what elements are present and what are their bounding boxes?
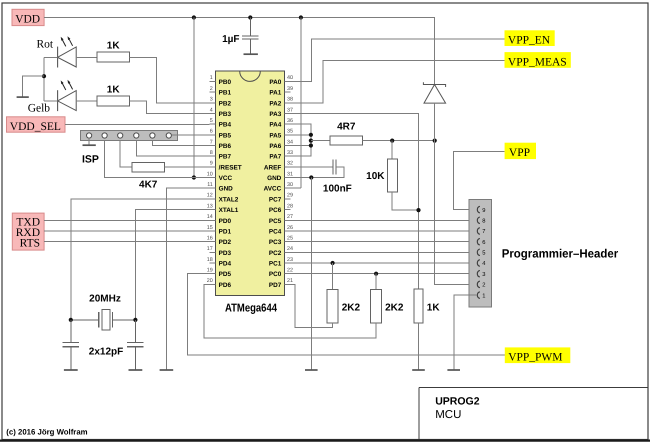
resistor R2 1K — [97, 84, 129, 106]
svg-text:PD5: PD5 — [219, 271, 232, 278]
svg-text:PB7: PB7 — [219, 154, 232, 161]
svg-text:PB1: PB1 — [219, 90, 232, 97]
wire PD5 to VPP_PWM — [188, 274, 505, 355]
resistor R6 2K2 — [327, 263, 360, 323]
svg-text:XTAL1: XTAL1 — [219, 207, 239, 214]
title block — [419, 388, 648, 440]
svg-text:PB3: PB3 — [219, 111, 232, 118]
svg-text:100nF: 100nF — [323, 183, 352, 194]
svg-text:9: 9 — [482, 207, 485, 214]
svg-text:1: 1 — [210, 75, 213, 81]
net label VDD — [12, 9, 44, 25]
wire R6 bottom to PD7 — [290, 284, 332, 327]
svg-text:2x12pF: 2x12pF — [89, 347, 123, 358]
svg-text:21: 21 — [287, 278, 293, 284]
svg-text:11: 11 — [207, 182, 213, 188]
svg-text:/RESET: /RESET — [219, 164, 242, 171]
svg-text:Gelb: Gelb — [28, 103, 51, 115]
IC U1 pins left side (1-20) with stubs, numbers and labels — [207, 75, 242, 289]
svg-text:18: 18 — [207, 257, 213, 263]
wire AREF to C4 — [290, 166, 333, 168]
svg-text:4: 4 — [210, 107, 213, 113]
svg-text:(c) 2016 Jörg Wolfram: (c) 2016 Jörg Wolfram — [6, 428, 87, 437]
wire PC5 to header pin8 — [290, 219, 476, 221]
ground GND net — [305, 369, 318, 371]
svg-text:ISP: ISP — [82, 153, 99, 165]
wire header pin1 to ground — [454, 295, 476, 369]
net label VDD_SEL — [7, 117, 66, 133]
svg-text:PA6: PA6 — [269, 143, 281, 150]
svg-text:2K2: 2K2 — [342, 302, 361, 313]
net label VPP_PWM — [505, 347, 571, 363]
svg-text:PC7: PC7 — [269, 196, 282, 203]
node junction 10K bottom — [416, 208, 420, 212]
wire TXD to PD0 — [44, 219, 209, 221]
node junction GND pin31 — [309, 175, 313, 179]
svg-text:35: 35 — [287, 129, 293, 135]
svg-text:AVCC: AVCC — [264, 186, 282, 193]
svg-text:AREF: AREF — [264, 164, 281, 171]
ground C2 — [64, 369, 78, 371]
svg-text:5: 5 — [210, 118, 213, 124]
wire XTAL2 to crystal — [71, 199, 210, 320]
svg-text:VPP_MEAS: VPP_MEAS — [508, 56, 567, 68]
wire PC0 to header pin3 — [290, 273, 476, 275]
svg-text:PB6: PB6 — [219, 143, 232, 150]
svg-text:2K2: 2K2 — [385, 302, 404, 313]
svg-text:PB2: PB2 — [219, 100, 232, 107]
svg-text:34: 34 — [287, 139, 293, 145]
svg-text:RTS: RTS — [20, 237, 40, 249]
node junction crystal left — [69, 318, 73, 322]
node junction R8 top — [374, 272, 378, 276]
svg-text:9: 9 — [210, 161, 213, 167]
wire PA4-PA7 cluster bus — [290, 124, 311, 156]
node junction on VDD rail at x=300.9 — [299, 15, 303, 19]
wire GND pin31 — [290, 177, 311, 179]
svg-text:36: 36 — [287, 118, 293, 124]
svg-text:20: 20 — [207, 278, 213, 284]
wire LED cathode bus — [43, 57, 45, 101]
svg-text:39: 39 — [287, 86, 293, 92]
resistor R5 10K — [366, 141, 397, 192]
LED D1 Rot — [37, 36, 77, 67]
wire PC2 to header pin5 — [290, 251, 476, 253]
svg-text:26: 26 — [287, 225, 293, 231]
svg-text:VDD: VDD — [15, 14, 40, 26]
svg-text:PA7: PA7 — [269, 154, 281, 161]
svg-text:PD7: PD7 — [269, 282, 282, 289]
node junction LED bus — [42, 74, 46, 78]
wire diode to header pin2 — [435, 103, 477, 284]
svg-text:27: 27 — [287, 214, 293, 220]
node junction PA5 — [309, 133, 313, 137]
node junction 10K top — [390, 139, 394, 143]
wire R3 to /RESET — [165, 166, 210, 168]
wire XTAL1 to crystal — [135, 210, 209, 320]
wire ISP pin5 to PB6 — [152, 141, 209, 146]
svg-text:Rot: Rot — [37, 38, 54, 50]
connector J2 Programmier-Header — [469, 199, 619, 307]
svg-text:30: 30 — [287, 182, 293, 188]
wire VDD_SEL to PB4 — [65, 124, 210, 126]
wire R7 bottom to ground — [418, 323, 420, 369]
svg-text:7: 7 — [482, 229, 485, 235]
wire to ground from LED bus — [23, 76, 44, 96]
resistor R7 1K — [414, 289, 440, 323]
svg-text:5: 5 — [482, 251, 485, 257]
wire GND pin11 down — [166, 188, 209, 369]
wire PC3 to header pin6 — [290, 241, 476, 243]
node junction on VDD rail at x=250.3 — [248, 15, 252, 19]
svg-text:PA0: PA0 — [269, 79, 281, 86]
svg-text:PD2: PD2 — [219, 239, 232, 246]
svg-text:3: 3 — [482, 271, 485, 278]
svg-text:PC1: PC1 — [269, 261, 282, 268]
svg-text:PA1: PA1 — [269, 90, 281, 97]
svg-text:1K: 1K — [427, 302, 441, 313]
ground header pin1 — [447, 369, 460, 371]
svg-text:1: 1 — [482, 293, 485, 299]
svg-text:PC2: PC2 — [269, 250, 282, 257]
svg-text:12: 12 — [207, 193, 213, 199]
svg-text:38: 38 — [287, 97, 293, 103]
wire AVCC riser to VDD rail — [290, 18, 301, 189]
wire LED D2 anode to R2 — [44, 100, 97, 102]
svg-text:33: 33 — [287, 150, 293, 156]
wire VPP to header pin9 — [454, 151, 505, 209]
svg-text:ATMega644: ATMega644 — [225, 303, 277, 315]
wire ISP pin4 to PB7 — [136, 141, 209, 157]
svg-text:XTAL2: XTAL2 — [219, 196, 239, 203]
resistor R8 2K2 — [371, 274, 404, 324]
ground R7 — [412, 369, 425, 371]
IC U1 ATMega644 body — [216, 71, 285, 315]
svg-text:PD1: PD1 — [219, 229, 232, 236]
ground ISP — [83, 144, 96, 146]
svg-text:4R7: 4R7 — [337, 122, 356, 133]
svg-text:VDD_SEL: VDD_SEL — [10, 121, 61, 133]
svg-text:PD3: PD3 — [219, 250, 232, 257]
svg-text:PB4: PB4 — [219, 122, 232, 129]
svg-text:Programmier–Header: Programmier–Header — [502, 247, 619, 261]
net label VPP_MEAS — [505, 52, 571, 68]
resistor R1 1K — [97, 41, 129, 63]
node junction diode bottom — [433, 139, 437, 143]
svg-text:37: 37 — [287, 107, 293, 113]
svg-text:4K7: 4K7 — [139, 180, 158, 191]
svg-text:PA4: PA4 — [269, 122, 281, 129]
svg-text:40: 40 — [287, 75, 293, 81]
svg-text:14: 14 — [207, 214, 213, 220]
wire RXD to PD1 — [44, 230, 209, 232]
svg-text:VPP_PWM: VPP_PWM — [508, 352, 562, 364]
svg-text:20MHz: 20MHz — [89, 294, 121, 305]
svg-text:25: 25 — [287, 236, 293, 242]
ground GND pin11 — [160, 369, 174, 371]
svg-text:UPROG2: UPROG2 — [435, 396, 480, 408]
node junction crystal right — [133, 318, 137, 322]
capacitor C4 100nF — [311, 160, 352, 195]
svg-text:31: 31 — [287, 171, 293, 177]
wire LED D1 anode to R1 — [44, 56, 97, 58]
ground C3 — [129, 369, 143, 371]
node junction R6 top — [331, 261, 335, 265]
LED D2 Gelb — [28, 80, 76, 115]
svg-text:PD6: PD6 — [219, 282, 232, 289]
svg-text:MCU: MCU — [435, 409, 461, 421]
resistor R3 4K7 — [132, 162, 165, 190]
node junction PA6 — [309, 143, 313, 147]
svg-text:PD4: PD4 — [219, 261, 232, 268]
svg-text:2: 2 — [482, 282, 485, 289]
svg-text:16: 16 — [207, 236, 213, 242]
wire 10K bottom to 1K column — [392, 192, 418, 210]
svg-text:GND: GND — [219, 186, 234, 193]
svg-text:7: 7 — [210, 139, 213, 145]
wire R8 bottom to PD6 — [204, 284, 376, 337]
svg-text:PA2: PA2 — [269, 100, 281, 107]
svg-text:PD0: PD0 — [219, 218, 232, 225]
wire PA0 to VPP_EN — [290, 39, 504, 82]
net label VPP — [505, 143, 536, 159]
svg-text:10K: 10K — [366, 171, 385, 182]
svg-text:6: 6 — [210, 129, 213, 135]
wire PC1 to header pin4 — [290, 262, 476, 264]
ground for C1 — [244, 53, 258, 55]
svg-text:PC0: PC0 — [269, 271, 282, 278]
connector J2 pin contacts and numbers 9..1 — [477, 206, 486, 299]
svg-text:28: 28 — [287, 203, 293, 209]
crystal Q1 20MHz — [71, 294, 136, 331]
svg-text:PA3: PA3 — [269, 111, 281, 118]
svg-text:8: 8 — [482, 218, 485, 225]
wire ISP pin6 to PB5 — [171, 134, 209, 136]
svg-text:1µF: 1µF — [222, 34, 239, 45]
svg-text:PC6: PC6 — [269, 207, 282, 214]
IC U1 pins right side (40-21) with stubs, numbers and labels — [264, 75, 293, 289]
svg-text:19: 19 — [207, 268, 213, 274]
wire PA2 to VPP_MEAS — [290, 61, 504, 103]
svg-text:PC4: PC4 — [269, 229, 282, 236]
wire R2 to PB3 — [129, 101, 209, 114]
svg-text:6: 6 — [482, 239, 485, 246]
capacitor C1 1uF — [222, 18, 258, 54]
node junction 4R7 tap — [309, 139, 313, 143]
svg-text:22: 22 — [287, 268, 293, 274]
wire GND pin31 down to ground — [310, 178, 312, 370]
wire RTS to PD2 — [44, 241, 209, 243]
svg-text:VPP: VPP — [509, 147, 530, 159]
svg-text:GND: GND — [267, 175, 282, 182]
resistor R4 4R7 — [330, 122, 363, 145]
capacitor C3 — [89, 320, 144, 369]
connector J1 ISP — [80, 131, 177, 166]
svg-text:32: 32 — [287, 161, 293, 167]
wire cluster to R4 — [311, 140, 330, 142]
net label TXD RXD RTS — [12, 213, 44, 250]
wire VDD drop to VCC pin10 — [193, 18, 195, 178]
node junction on VDD rail at x=193.9 — [192, 15, 196, 19]
svg-text:1K: 1K — [107, 84, 121, 95]
net label VPP_EN — [505, 30, 555, 46]
svg-text:VPP_EN: VPP_EN — [508, 35, 551, 47]
svg-text:VCC: VCC — [219, 175, 233, 182]
wire VDD rail — [44, 18, 435, 85]
svg-text:1K: 1K — [107, 41, 121, 52]
svg-text:8: 8 — [210, 150, 213, 156]
svg-text:17: 17 — [207, 246, 213, 252]
svg-text:2: 2 — [210, 86, 213, 92]
ground LED bus — [17, 96, 29, 98]
svg-text:PB0: PB0 — [219, 79, 232, 86]
svg-text:23: 23 — [287, 257, 293, 263]
svg-text:PC3: PC3 — [269, 239, 282, 246]
svg-text:24: 24 — [287, 246, 293, 252]
wire PA3 down to R7 1K — [290, 114, 418, 289]
svg-text:29: 29 — [287, 193, 293, 199]
wire ISP pin3 to R3 — [120, 141, 132, 168]
wire R1 to PB2 — [129, 57, 209, 103]
svg-text:15: 15 — [207, 225, 213, 231]
node junction VCC — [192, 175, 196, 179]
svg-text:PA5: PA5 — [269, 132, 281, 139]
capacitor C2 — [63, 320, 80, 369]
wire ISP pin1 to ground — [88, 138, 90, 145]
wire PC4 to header pin7 — [290, 230, 476, 232]
svg-text:PB5: PB5 — [219, 132, 232, 139]
wire R4 to diode junction — [363, 140, 435, 142]
svg-text:10: 10 — [207, 171, 213, 177]
svg-text:PC5: PC5 — [269, 218, 282, 225]
svg-text:3: 3 — [210, 97, 213, 103]
diode D3 zener — [423, 82, 445, 103]
wire ISP pin2 to VCC — [105, 141, 210, 178]
svg-text:13: 13 — [207, 203, 213, 209]
